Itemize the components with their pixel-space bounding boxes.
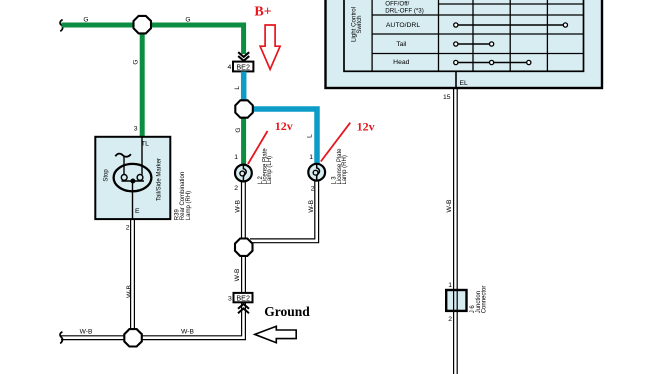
svg-text:Stop: Stop: [104, 169, 110, 182]
svg-text:EL: EL: [460, 80, 469, 87]
svg-text:Lamp (RH): Lamp (RH): [186, 191, 192, 220]
table row line 2: [372, 33, 583, 35]
svg-text:BE2: BE2: [236, 62, 250, 71]
svg-text:15: 15: [443, 94, 451, 101]
wire W-B from rear combination lamp to ground junction: [131, 220, 135, 333]
junction octagon (W-B): [235, 239, 253, 256]
svg-text:Connector: Connector: [482, 286, 488, 314]
svg-text:3: 3: [228, 295, 232, 302]
wire break squiggle (bottom left): [60, 332, 62, 344]
svg-text:DRL-OFF (*3): DRL-OFF (*3): [385, 7, 424, 14]
svg-text:12v: 12v: [275, 119, 293, 133]
svg-text:AUTO/DRL: AUTO/DRL: [386, 22, 420, 29]
svg-text:G: G: [185, 16, 190, 23]
table row line 3: [372, 53, 583, 55]
table column line (label column): [371, 0, 373, 71]
svg-text:2: 2: [311, 186, 315, 193]
table row line 1: [372, 14, 583, 16]
svg-text:Switch: Switch: [356, 15, 363, 34]
svg-text:1: 1: [448, 282, 452, 289]
Head contact line: [454, 60, 531, 64]
svg-text:W-B: W-B: [126, 285, 133, 298]
svg-text:G: G: [132, 59, 139, 64]
svg-text:G: G: [235, 127, 242, 132]
AUTO/DRL contact line: [454, 23, 568, 27]
stop filament break squiggle: [115, 154, 131, 157]
svg-text:2: 2: [448, 316, 452, 323]
svg-text:W-B: W-B: [234, 199, 241, 212]
wire L from BE2 to junction: [241, 72, 247, 105]
junction octagon (middle): [235, 100, 253, 117]
B+ arrow: [260, 25, 280, 69]
label Light Control Switch: [350, 7, 363, 42]
svg-text:2: 2: [126, 225, 130, 232]
svg-text:OFF/Off/: OFF/Off/: [385, 0, 409, 7]
wire break squiggle (top left): [60, 20, 63, 32]
svg-text:W-B: W-B: [181, 328, 194, 335]
wire EL pin lead inside box: [455, 71, 457, 89]
junction connector J6: [446, 290, 466, 311]
svg-text:B+: B+: [254, 5, 271, 20]
connector chevrons (out of BE2, pointing up): [238, 304, 249, 313]
rear combination lamp R39 box: [95, 137, 170, 219]
table column line 4: [546, 0, 548, 71]
wire G vertical to rear combination lamp: [140, 25, 145, 138]
junction octagon (top): [134, 16, 152, 34]
table header row line (contact area): [439, 3, 584, 5]
ground arrow: [255, 326, 296, 342]
svg-text:1: 1: [309, 154, 313, 161]
lead TL to bulb: [141, 138, 143, 175]
connector 4 BE2: [233, 62, 253, 72]
svg-text:Tail/Side Marker: Tail/Side Marker: [156, 158, 162, 201]
svg-text:Ground: Ground: [264, 304, 310, 319]
svg-text:L: L: [234, 86, 241, 90]
switch table frame: [344, 0, 584, 71]
table column line (row-name column): [438, 0, 440, 71]
12v callout (L2): [248, 119, 293, 164]
wire G from junction to lamp L2: [241, 109, 246, 165]
svg-text:W-B: W-B: [308, 199, 315, 212]
connector chevrons (into BE2, pointing down): [238, 52, 249, 61]
wire L to license plate lamp RH: [250, 109, 317, 164]
svg-text:BE2: BE2: [236, 294, 250, 303]
svg-text:G: G: [83, 16, 88, 23]
wire W-B (right vertical from light control switch to bottom): [454, 89, 458, 374]
Tail contact line: [454, 42, 494, 46]
table column line 2: [472, 0, 474, 71]
svg-text:Head: Head: [393, 59, 409, 66]
wire G horizontal with corner down to BE2: [62, 25, 244, 54]
wire W-B from junction to BE2: [242, 255, 246, 295]
svg-text:Tail: Tail: [396, 41, 407, 48]
junction octagon (ground): [124, 329, 142, 346]
wire W-B from BE2 down and left to ground run: [61, 303, 245, 340]
svg-text:L: L: [306, 134, 313, 138]
svg-text:2: 2: [234, 185, 238, 192]
bulb R39: [114, 164, 152, 191]
svg-text:W-B: W-B: [234, 268, 241, 281]
svg-text:4: 4: [228, 64, 232, 71]
svg-text:12v: 12v: [357, 120, 375, 134]
svg-text:W-B: W-B: [446, 199, 453, 213]
lamp L3: [308, 164, 325, 181]
label R39 Rear Combination Lamp (RH): [175, 172, 193, 220]
svg-text:E: E: [135, 208, 140, 215]
label L 3 License Plate Lamp (RH): [332, 148, 348, 185]
connector 3 BE2: [234, 293, 253, 303]
wire W-B from L3 down and left to junction: [250, 181, 319, 243]
svg-text:1: 1: [234, 154, 238, 161]
wire W-B from L2 down to junction: [242, 182, 246, 243]
label J 6 Junction Connector: [470, 286, 488, 314]
lamp L2: [235, 165, 252, 182]
label L 2 License Plate Lamp (LH): [258, 148, 273, 185]
light control switch block (outer connector box): [326, 0, 603, 88]
svg-text:Lamp (LH): Lamp (LH): [267, 156, 273, 184]
lead stop to bulb: [123, 157, 125, 175]
lead bulb to E: [132, 181, 134, 219]
12v callout (L3): [321, 120, 375, 162]
table column line 3: [509, 0, 511, 71]
svg-text:W-B: W-B: [80, 328, 93, 335]
svg-text:3: 3: [134, 126, 138, 133]
row label OFF/Off/DRL-OFF (*3): [385, 0, 424, 14]
svg-text:Lamp (RH): Lamp (RH): [342, 155, 348, 184]
